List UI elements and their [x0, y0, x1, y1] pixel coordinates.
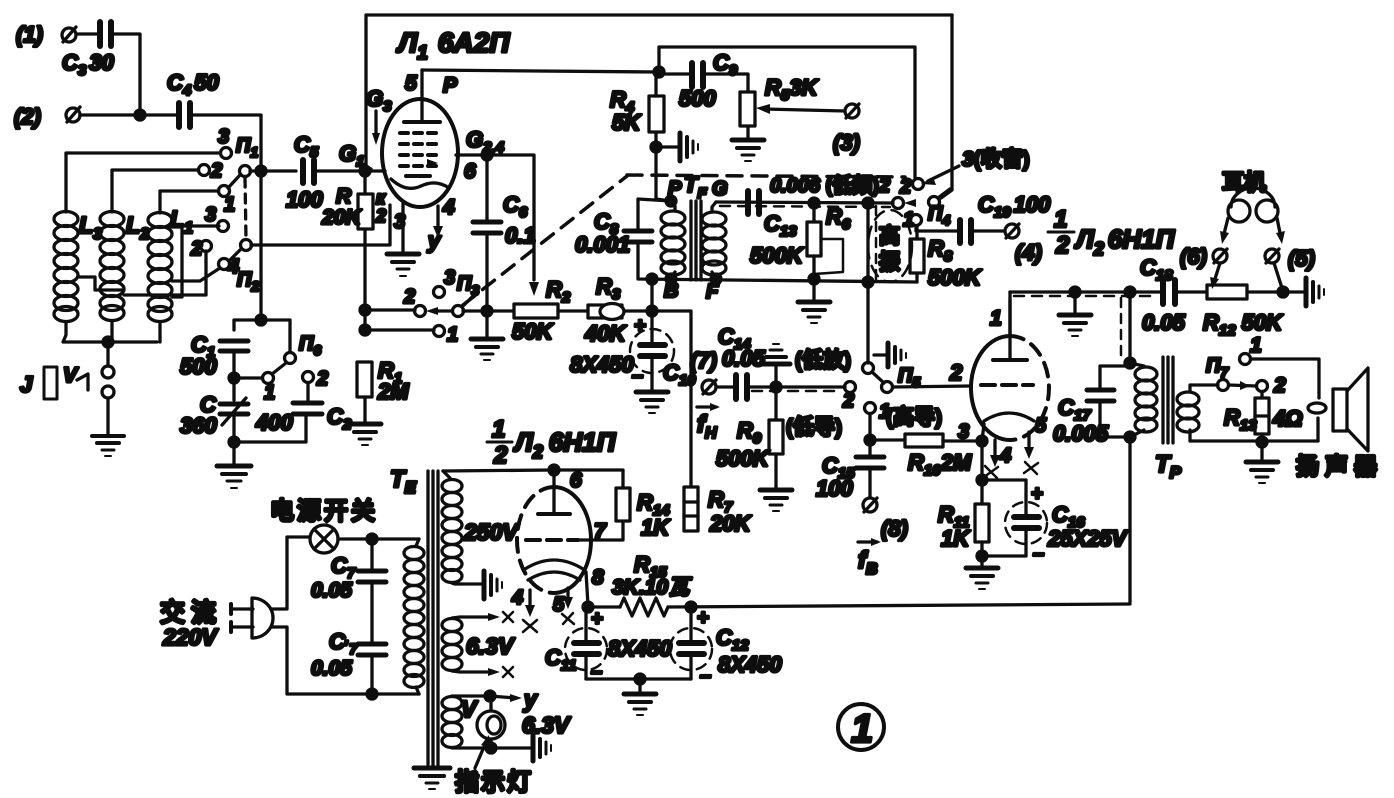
capacitor C15 100 — [816, 453, 884, 501]
wire R8 — [915, 226, 918, 239]
chassis ground sideways at R4 bottom — [656, 133, 698, 161]
resistor R5 3K — [740, 75, 819, 126]
wire V top to lamp node arrow y — [452, 686, 538, 712]
П5 pivot — [872, 365, 920, 393]
ground below R1 — [349, 424, 381, 445]
line A middle — [463, 309, 514, 312]
resistor R6 — [807, 204, 851, 256]
П4 pivot with arm — [928, 189, 950, 228]
svg-text:6.3V: 6.3V — [466, 633, 515, 659]
resistor R12 50K — [1203, 285, 1284, 339]
label fB with arrow — [858, 538, 881, 578]
shielded plate bus to C18 — [1010, 292, 1160, 296]
U2b cathode arcs — [525, 560, 583, 580]
svg-text:220V: 220V — [162, 624, 218, 650]
label 交流 220V — [160, 598, 222, 650]
main B+ bus — [588, 605, 620, 608]
label 1/2 Л2 6Н1П bottom — [487, 416, 617, 469]
headphones 耳机 — [1220, 170, 1285, 244]
TE 6.3V winding — [442, 619, 515, 671]
svg-text:高: 高 — [879, 224, 900, 248]
svg-text:6: 6 — [570, 469, 582, 492]
svg-text:+: + — [697, 607, 709, 629]
wire R12 to ground — [1247, 290, 1303, 293]
TE primary winding — [404, 539, 424, 694]
U2a plate — [990, 300, 1027, 360]
svg-text:4Ω: 4Ω — [1272, 406, 1302, 431]
svg-text:500K: 500K — [750, 243, 805, 268]
svg-text:5K: 5K — [612, 110, 642, 135]
capacitor C8 0.001 — [575, 209, 652, 257]
svg-text:(低放): (低放) — [795, 348, 851, 372]
plate P of U1 — [404, 70, 458, 122]
П7 contact 2 — [1257, 374, 1287, 397]
capacitor C7' — [311, 629, 386, 680]
wire — [80, 113, 176, 116]
svg-text:C19100: C19100 — [978, 192, 1051, 221]
vertical link B node to line A — [650, 279, 653, 311]
capacitor C2 — [255, 403, 352, 435]
capacitor C17 0.005 — [1053, 390, 1114, 446]
U2a cathode arc — [984, 413, 1034, 421]
svg-text:1K: 1K — [641, 515, 671, 540]
switch П6 — [263, 333, 322, 404]
switch П4 contact 2 — [899, 176, 924, 198]
ground below C10 — [636, 392, 668, 413]
resistor R14 1K — [616, 488, 671, 540]
electrolytic C10 — [570, 315, 696, 389]
dashed gang horizontal — [627, 175, 905, 177]
wire R13 — [1260, 392, 1263, 398]
arrow onto R2 (pot wiper) — [529, 282, 539, 296]
wire terminal to C14 — [716, 385, 736, 388]
jack J — [20, 364, 114, 399]
indicator lamp — [477, 696, 571, 748]
capacitor C1 — [180, 332, 248, 379]
svg-text:25X25V: 25X25V — [1047, 526, 1129, 551]
resistor R11 1K — [938, 502, 989, 551]
bus R15 to Tp — [668, 604, 1130, 607]
G3 label with arrow — [366, 86, 392, 145]
svg-text:20K: 20K — [709, 511, 752, 536]
svg-text:к: к — [376, 188, 386, 208]
wire C10 — [650, 311, 653, 345]
svg-text:5: 5 — [405, 72, 417, 95]
svg-text:y: y — [427, 228, 442, 253]
plate wire U1 to R4 node — [422, 70, 659, 72]
outer feedback box right edge — [941, 15, 952, 198]
wire grid to R14 bottom — [578, 521, 623, 540]
wire C15 — [868, 440, 871, 457]
svg-text:100: 100 — [286, 187, 323, 212]
wire lamp bottom — [452, 743, 530, 753]
switch П2 — [190, 204, 259, 294]
coil L3 — [54, 212, 102, 322]
wire R11 bottom — [980, 542, 983, 566]
U2a heater pins 4,5 — [984, 440, 1011, 478]
svg-text:电源开关: 电源开关 — [270, 498, 378, 525]
svg-text:6.3V: 6.3V — [522, 712, 571, 738]
inner box plate to П4 contact2 — [659, 47, 915, 177]
svg-text:P: P — [668, 178, 682, 200]
terminal (5) — [1265, 246, 1315, 271]
terminal (1) antenna — [16, 22, 76, 47]
wire R1 — [363, 397, 366, 422]
AC plug — [231, 598, 273, 638]
grid arrow inside — [427, 159, 438, 167]
svg-text:指示灯: 指示灯 — [455, 769, 533, 796]
wire 250V top — [443, 470, 554, 471]
svg-text:2M: 2M — [377, 379, 409, 404]
svg-text:1: 1 — [224, 194, 235, 216]
wire П1 pivot to node — [250, 169, 296, 172]
svg-text:1: 1 — [990, 307, 1002, 330]
shielded wire C14 to П5 contact 2 — [747, 387, 845, 391]
chassis ground right — [1306, 278, 1324, 306]
transformer Tp primary — [1100, 287, 1182, 602]
svg-text:400: 400 — [255, 410, 293, 435]
svg-text:8X450: 8X450 — [608, 636, 672, 661]
svg-text:交流: 交流 — [160, 598, 222, 627]
chassis ground 250V bottom — [461, 571, 502, 599]
resistor R4 5K — [610, 87, 664, 135]
wire R2-R3 — [558, 309, 588, 312]
capacitor C9 — [679, 50, 738, 111]
wire C11/C12 bottoms — [586, 677, 691, 680]
TE V winding — [442, 696, 478, 748]
variable capacitor C 360 — [180, 392, 248, 438]
svg-text:2: 2 — [316, 368, 328, 390]
capacitor C19 100 — [960, 192, 1051, 243]
svg-text:2: 2 — [210, 160, 222, 182]
svg-text:J: J — [20, 372, 33, 397]
svg-text:500: 500 — [180, 354, 217, 379]
switch П5 contact 2 — [842, 382, 856, 413]
ground below C360 — [217, 466, 251, 488]
resistor R8 500K — [910, 236, 983, 290]
svg-text:Л26Н1П: Л26Н1П — [1074, 224, 1176, 259]
label 3(收音) with arrow — [921, 147, 1030, 185]
wire P node to C8 — [638, 199, 671, 228]
TF secondary winding — [702, 202, 726, 278]
wire П5 to tube grid — [893, 386, 970, 387]
TE core — [428, 471, 438, 766]
wire C8 bottom to B/F bus — [638, 242, 917, 282]
line B to contact 1 — [365, 328, 434, 331]
svg-text:1K: 1K — [941, 526, 971, 551]
svg-text:(6): (6) — [1180, 244, 1207, 269]
svg-text:2: 2 — [899, 176, 911, 198]
svg-text:2: 2 — [375, 206, 386, 226]
svg-text:3: 3 — [218, 126, 229, 148]
svg-text:6: 6 — [464, 160, 476, 183]
svg-text:(5): (5) — [1288, 246, 1315, 271]
terminal (7) — [702, 380, 716, 394]
power switch lamp symbol — [310, 525, 338, 553]
svg-text:R: R — [336, 185, 352, 208]
svg-text:3: 3 — [444, 267, 455, 289]
svg-text:40K: 40K — [584, 321, 627, 346]
svg-text:P: P — [443, 74, 458, 97]
cathode arc of U1 — [391, 179, 449, 188]
wire R5 to ground — [746, 126, 749, 138]
capacitor C13 0.006 — [748, 191, 805, 268]
svg-text:1: 1 — [492, 416, 505, 443]
svg-text:0.006 (低频)2: 0.006 (低频)2 — [770, 173, 890, 197]
svg-text:1: 1 — [264, 382, 275, 404]
wire top to R14 — [554, 470, 623, 488]
resistor R 20K grid leak — [321, 185, 386, 229]
shielded wire G to П4 (dash overlay) — [716, 202, 893, 207]
wire R3 to corner, down to R7 — [624, 311, 691, 487]
wire C17 — [1100, 366, 1130, 390]
switch П3 — [403, 267, 479, 346]
svg-text:250V: 250V — [463, 519, 519, 545]
svg-text:4: 4 — [442, 196, 455, 219]
chassis ground lamp — [533, 735, 551, 761]
wire C6 — [485, 155, 488, 222]
wire — [190, 115, 261, 171]
label fH with arrow — [697, 403, 720, 442]
Tp secondary — [1177, 385, 1318, 441]
shield dashes Tp feed — [1120, 298, 1123, 356]
svg-text:50K: 50K — [512, 319, 554, 344]
resistor R2 50K pot — [512, 277, 571, 344]
contact 2 of П6 — [303, 368, 329, 390]
svg-text:1: 1 — [1250, 334, 1262, 357]
wire П2 contact2 to L2 tap — [124, 251, 206, 295]
dashed vertical gang to П5 — [875, 206, 878, 282]
U2a pin 3 — [982, 424, 984, 441]
wire C5 to G1 — [314, 169, 385, 172]
ground below C11/C12 — [624, 679, 656, 715]
svg-text:(7): (7) — [690, 348, 717, 373]
chassis ground above C14 node — [762, 344, 790, 387]
ground below R6 — [798, 302, 830, 323]
wire C7 chain — [370, 539, 373, 571]
TF primary winding — [661, 201, 685, 277]
node junction C3/C4 — [135, 110, 145, 120]
wire C9 — [659, 72, 692, 75]
U2b grid dashes — [526, 538, 578, 542]
ground below R9 — [760, 490, 792, 511]
svg-text:4: 4 — [511, 587, 523, 609]
П4 contact 1 — [903, 209, 922, 231]
svg-text:3: 3 — [394, 211, 405, 233]
ground below R5 — [732, 140, 764, 161]
wire C19 to terminal (4) — [971, 229, 1004, 232]
U2b plate — [538, 469, 582, 514]
ground below R13 — [1246, 462, 1278, 483]
Tp core — [1163, 357, 1173, 443]
label 指示灯 with arrow — [455, 735, 533, 796]
resistor R3 40K — [584, 274, 627, 346]
wire C18 to R12 — [1175, 290, 1207, 293]
speaker — [1296, 368, 1383, 479]
svg-text:2: 2 — [842, 390, 854, 412]
svg-text:(1): (1) — [16, 22, 43, 47]
wire cathode down — [980, 441, 983, 504]
svg-text:1: 1 — [447, 324, 458, 346]
transformer TF labels — [664, 172, 728, 303]
wire L1 top to П1 contact 1 — [160, 191, 218, 213]
svg-text:(2): (2) — [14, 104, 41, 129]
wire — [111, 34, 140, 114]
wire node down to C1 top — [259, 171, 262, 320]
svg-text:5: 5 — [553, 594, 565, 616]
wire switch to TE primary — [338, 537, 419, 540]
wire L3 top to П1 contact 3 — [66, 153, 219, 212]
П5 upper contact with chassis — [863, 343, 907, 374]
label 1/2 Л2 6Н1П top — [1048, 206, 1176, 259]
wire secondary bottom to speaker — [1316, 418, 1319, 441]
svg-text:2: 2 — [403, 286, 415, 308]
terminal (3) — [833, 104, 860, 155]
svg-text:3K.10瓦: 3K.10瓦 — [612, 576, 692, 599]
R6 pot tap — [814, 239, 843, 274]
wire П6 contact1 to C1 node — [234, 376, 262, 379]
wire C1 to variable cap — [232, 351, 235, 400]
wire contact1 down to R10/C15 — [870, 414, 905, 440]
grid dashes of U1 — [400, 133, 436, 176]
wire (6) to bus — [1210, 263, 1220, 289]
svg-text:0.1: 0.1 — [505, 223, 536, 248]
svg-text:–: – — [700, 665, 711, 687]
svg-text:(8): (8) — [881, 516, 908, 541]
figure number 1 — [838, 704, 884, 751]
feedback wire top box to G3 — [366, 15, 952, 171]
tube U1 envelope — [382, 99, 458, 207]
wire plug bottom loop — [272, 627, 419, 694]
wire C1 top tee — [234, 320, 290, 352]
electrolytic C16 — [982, 480, 1129, 565]
ground below C6 node — [471, 311, 503, 360]
wire П2 pivot to cathode node — [251, 205, 390, 245]
capacitor C14 — [736, 375, 747, 399]
terminal (4) — [1005, 224, 1042, 265]
svg-text:2: 2 — [1273, 374, 1286, 397]
capacitor C4 — [167, 70, 219, 127]
capacitor C18 0.05 — [1140, 255, 1186, 335]
resistor R13 4Ω — [1224, 398, 1302, 434]
ground below TE core — [414, 768, 450, 789]
wire П2 contact3 tap to L1 — [172, 226, 219, 297]
svg-text:+: + — [591, 608, 603, 630]
svg-text:500: 500 — [679, 86, 716, 111]
terminal (8) — [863, 498, 908, 541]
dashed tuning gang diagonal — [463, 176, 627, 305]
terminal (6) — [1180, 244, 1227, 269]
svg-text:100: 100 — [816, 476, 853, 501]
wire R10 to cathode node — [943, 439, 982, 442]
svg-text:0.05: 0.05 — [1142, 310, 1186, 335]
U2a grid dashes — [981, 383, 1033, 387]
capacitor C3 — [62, 22, 114, 79]
resistor R10 2M — [905, 434, 972, 479]
U2b heater pins 4,5 — [511, 587, 537, 632]
ground below jack — [92, 436, 124, 456]
svg-text:R102M: R102M — [908, 450, 972, 479]
svg-text:2: 2 — [190, 238, 202, 260]
wire contact2 to C2 — [306, 383, 309, 400]
svg-text:y: y — [523, 686, 538, 712]
svg-text:扬声器: 扬声器 — [1296, 453, 1383, 479]
capacitor C6 — [473, 192, 536, 248]
svg-text:(高导): (高导) — [886, 405, 942, 429]
svg-text:–: – — [632, 365, 643, 387]
svg-text:1: 1 — [1054, 206, 1067, 233]
speaker lug — [1308, 403, 1326, 413]
wire (5) to bus — [1274, 263, 1282, 288]
wire — [76, 32, 97, 35]
svg-text:2: 2 — [949, 360, 963, 385]
svg-text:500K: 500K — [716, 446, 771, 471]
wire coil bottoms bus — [63, 322, 157, 342]
wire G2,4 from tube to pot arrow — [456, 155, 534, 280]
wire L2 top to П1 contact 2 — [112, 170, 198, 212]
svg-text:3(收音): 3(收音) — [962, 147, 1030, 171]
svg-text:+: + — [1031, 483, 1043, 505]
svg-text:2: 2 — [1055, 232, 1070, 259]
svg-text:–: – — [1033, 543, 1044, 565]
switch П7 pivot — [1206, 355, 1256, 391]
electrolytic C12 — [670, 607, 782, 687]
6.3V top lead arrow x — [452, 612, 513, 622]
wire R6 — [812, 203, 815, 222]
svg-text:+: + — [634, 315, 646, 337]
wire R4 node to TF P — [656, 199, 671, 201]
svg-text:振: 振 — [879, 251, 900, 274]
capacitor C5 — [286, 132, 323, 212]
svg-text:8: 8 — [592, 566, 604, 589]
resistor R7 20K — [684, 487, 752, 536]
wire П2 contact4 to L1 tap — [172, 268, 220, 281]
ground stub below bus — [1059, 287, 1091, 336]
svg-text:R1250K: R1250K — [1203, 310, 1284, 339]
switch П1 — [199, 126, 259, 216]
svg-text:4: 4 — [999, 445, 1011, 467]
svg-text:20K: 20K — [321, 206, 362, 229]
coil L1 — [148, 206, 193, 322]
svg-text:V: V — [63, 364, 79, 387]
tube U2b envelope (half dashed) — [517, 487, 591, 593]
wire bus down to jack — [106, 342, 109, 366]
wire R20K — [363, 171, 366, 194]
svg-text:V: V — [461, 696, 478, 722]
resistor R15 3K 10W zigzag — [612, 552, 692, 616]
terminal (2) — [14, 104, 80, 129]
label C14 (7) 0.05 — [690, 324, 766, 373]
pin3 ground stem — [401, 204, 404, 252]
wire R9 — [774, 387, 777, 420]
contact 1 (высок) — [865, 401, 943, 429]
TE 250V winding — [442, 471, 519, 584]
ground below R11 — [966, 568, 998, 589]
svg-text:R53K: R53K — [765, 75, 819, 104]
solid wire x868 down to П5 — [866, 203, 869, 363]
wire R4 — [654, 72, 657, 96]
wire plug to switch — [272, 537, 310, 609]
wire C360/C2 bottoms to ground — [234, 414, 306, 442]
svg-text:0.05: 0.05 — [722, 346, 766, 371]
wire contact1 to C19 — [916, 226, 958, 231]
svg-text:Л26Н1П: Л26Н1П — [513, 427, 617, 462]
svg-text:(3): (3) — [833, 130, 860, 155]
line A left — [365, 308, 415, 311]
resistor R1 — [357, 358, 409, 404]
svg-text:(4): (4) — [1015, 240, 1042, 265]
svg-text:8X450: 8X450 — [718, 652, 782, 677]
